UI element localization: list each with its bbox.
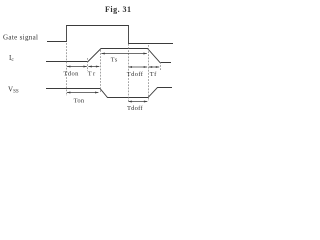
arrow Ton span <box>67 92 98 94</box>
svg-text:Fig. 31: Fig. 31 <box>105 5 131 14</box>
svg-text:Tdon: Tdon <box>63 71 79 78</box>
dashed reference line x=148 current fall start <box>148 45 150 101</box>
Vss voltage waveform <box>46 88 172 98</box>
svg-text:VSS: VSS <box>8 86 19 95</box>
dashed reference line x=100 current top start <box>100 50 102 92</box>
dashed reference line x=87.5 current rise start <box>87 58 89 71</box>
arrow Tf span <box>149 66 159 68</box>
gate signal waveform <box>47 26 173 44</box>
svg-text:Ic: Ic <box>9 54 14 63</box>
dashed reference line x=128 gate fall <box>128 44 130 101</box>
arrow Tdoff bottom span <box>128 101 147 103</box>
svg-text:Tdoff: Tdoff <box>127 105 143 112</box>
svg-text:Tf: Tf <box>150 71 157 78</box>
arrow Tdoff upper span <box>129 66 148 68</box>
svg-text:Tr: Tr <box>88 71 96 78</box>
arrow Tdon span <box>67 66 87 68</box>
collector current waveform <box>46 49 171 63</box>
svg-text:Gate signal: Gate signal <box>3 34 38 42</box>
svg-text:Ts: Ts <box>111 57 118 64</box>
arrow Tr span <box>88 66 99 68</box>
dashed reference line x=66 gate rise <box>66 43 68 96</box>
arrow Ts span <box>101 53 146 55</box>
dashed reference line x=160 current fall end <box>160 62 162 71</box>
svg-text:Tdoff: Tdoff <box>127 71 144 78</box>
svg-text:Ton: Ton <box>74 98 85 105</box>
